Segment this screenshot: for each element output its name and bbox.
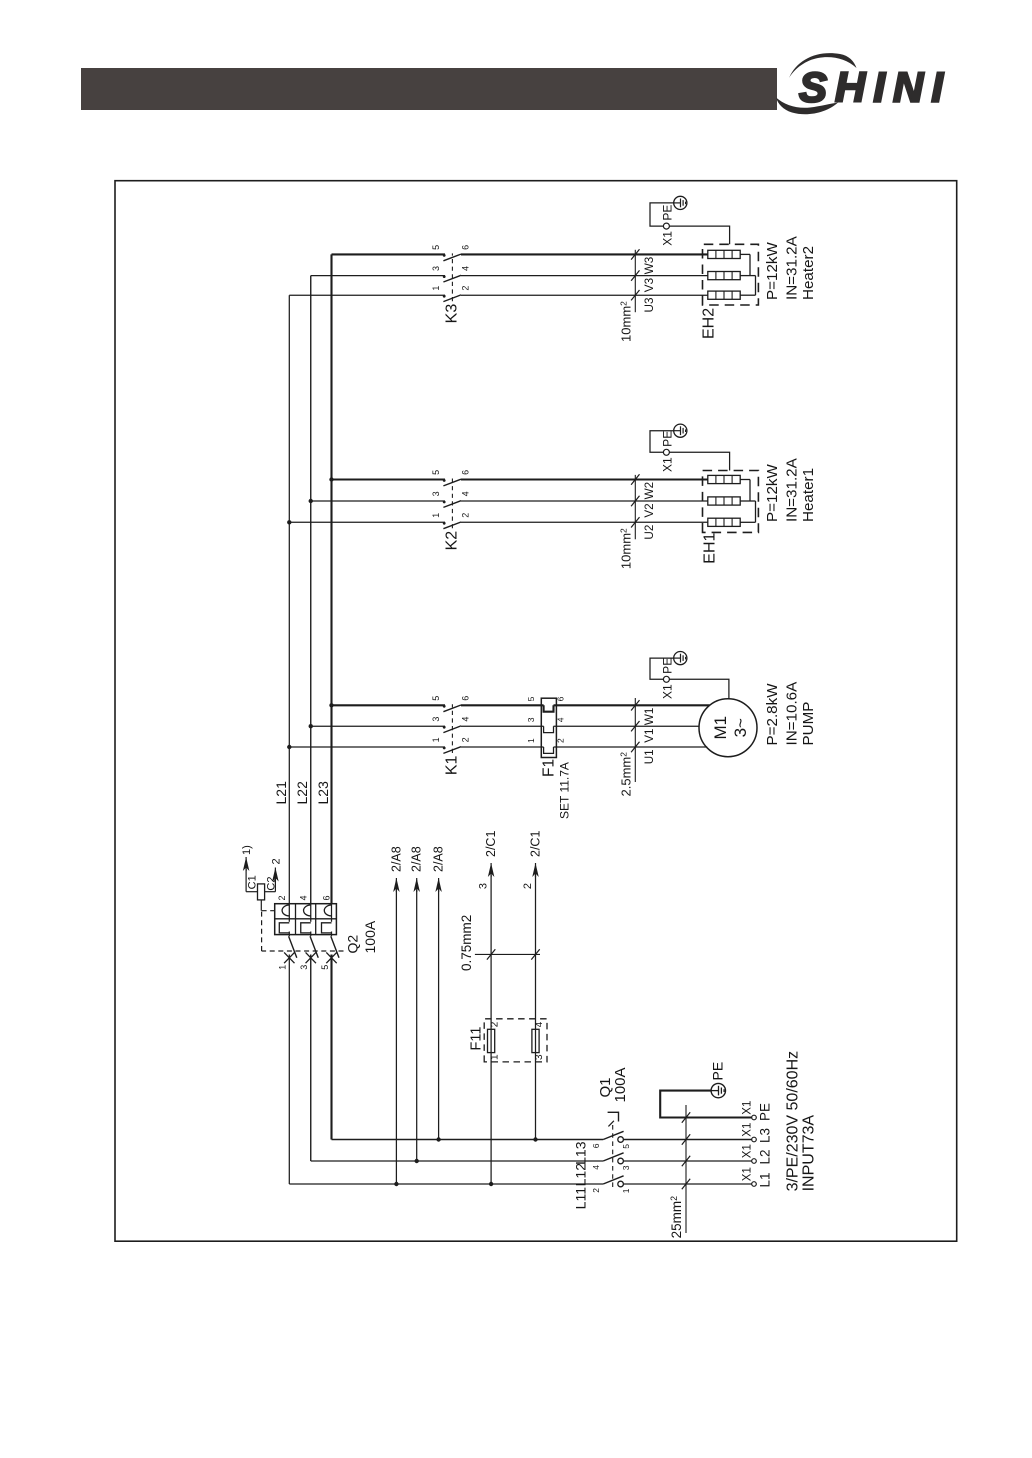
svg-text:P=12kW: P=12kW [764, 242, 781, 300]
svg-text:IN=31.2A: IN=31.2A [784, 457, 801, 522]
svg-text:2: 2 [460, 737, 470, 742]
wire W1 (F1 pin6 to motor) [554, 704, 710, 706]
svg-text:5: 5 [320, 965, 330, 970]
svg-text:PUMP: PUMP [800, 702, 817, 746]
header title bar [81, 68, 777, 110]
wire EH1 phase V (contactor to element) [461, 500, 708, 502]
svg-text:V2: V2 [643, 503, 656, 517]
svg-text:C1: C1 [246, 875, 258, 889]
svg-text:5: 5 [431, 245, 441, 250]
terminal X1 on PE wire of motor M1 [663, 676, 669, 682]
svg-text:5: 5 [431, 470, 441, 475]
svg-text:U2: U2 [643, 525, 656, 540]
svg-text:X1: X1 [742, 1167, 754, 1181]
terminal X1 on PE wire of heater EH2 [663, 223, 669, 229]
wire K1 pin4 to F1 (V phase) [461, 725, 544, 727]
dashed enclosure EH1 [703, 471, 759, 533]
svg-text:L3: L3 [758, 1128, 773, 1143]
wire drop L23 to K2 pin5 [332, 478, 446, 480]
earth symbol of heater EH1 [674, 424, 687, 437]
circuit breaker Q2 body [275, 904, 337, 937]
svg-text:1: 1 [431, 737, 441, 742]
terminal X1 L3 [752, 1137, 757, 1142]
wire L13 [332, 1139, 604, 1141]
heater element 3 of EH1 [708, 475, 750, 483]
svg-text:EH1: EH1 [702, 532, 719, 563]
svg-text:PE: PE [758, 1103, 773, 1121]
svg-text:6: 6 [556, 696, 566, 701]
svg-text:2: 2 [490, 1021, 501, 1027]
svg-text:2/A8: 2/A8 [432, 846, 446, 872]
wire tap 2/C1 wire 3 (via fuse F11) [490, 875, 492, 1184]
svg-text:4: 4 [534, 1021, 545, 1027]
wire drop L22 to K2 pin3 [311, 500, 445, 502]
wire EH1 phase W (contactor to element) [461, 478, 708, 480]
wire EH2 phase W (contactor to element) [461, 253, 708, 255]
svg-text:PE: PE [661, 658, 675, 674]
svg-text:3: 3 [431, 717, 441, 722]
svg-text:X1: X1 [661, 457, 675, 472]
earth symbol input PE [711, 1083, 725, 1097]
svg-text:L22: L22 [294, 781, 310, 805]
svg-text:L23: L23 [315, 781, 331, 805]
svg-text:P=12kW: P=12kW [764, 464, 781, 522]
Q2 mechanism dashed link [261, 900, 343, 951]
drawing border frame [115, 181, 957, 1242]
wire EH2 phase V (contactor to element) [461, 275, 708, 277]
svg-text:3: 3 [621, 1165, 631, 1170]
wire drop L23 to K3 pin5 [332, 253, 446, 255]
svg-text:W2: W2 [643, 482, 656, 500]
cable marker 10mm2 for EH1 [619, 474, 640, 569]
wire V1 (F1 pin4 to motor) [554, 725, 700, 727]
wire tap 2/A8 phase L13 [438, 890, 440, 1140]
motor M1 pump [699, 699, 757, 757]
wire drop L22 to K3 pin3 [311, 275, 445, 277]
wire K1 pin2 to F1 (U phase) [461, 746, 544, 748]
svg-text:3: 3 [534, 1054, 545, 1060]
svg-text:6: 6 [460, 245, 470, 250]
wire L12 [311, 1160, 603, 1162]
svg-text:SET 11.7A: SET 11.7A [558, 762, 572, 819]
svg-text:5: 5 [526, 696, 536, 701]
heater element 2 of EH2 [708, 272, 756, 280]
svg-text:PE: PE [661, 431, 675, 447]
svg-text:X1: X1 [661, 684, 675, 699]
svg-text:6: 6 [591, 1143, 601, 1148]
svg-text:4: 4 [591, 1165, 601, 1170]
dashed enclosure EH2 [703, 244, 759, 305]
svg-text:2/A8: 2/A8 [389, 846, 403, 872]
heater element 2 of EH1 [708, 497, 756, 505]
svg-text:C2: C2 [265, 877, 277, 891]
svg-text:P=2.8kW: P=2.8kW [764, 683, 781, 746]
star tie wire of EH2 [749, 254, 751, 275]
cable marker 2.5mm2 for pump feed [619, 698, 640, 796]
contactor K3 mechanism dashed link [451, 253, 453, 301]
svg-text:3: 3 [431, 491, 441, 496]
svg-text:SHINI: SHINI [799, 64, 951, 111]
svg-text:100A: 100A [362, 920, 378, 953]
svg-text:F11: F11 [469, 1027, 485, 1051]
contactor K1 contacts [443, 705, 461, 754]
cable marker 10mm2 for EH2 [619, 249, 640, 342]
svg-text:3/PE/230V 50/60Hz: 3/PE/230V 50/60Hz [785, 1051, 802, 1192]
svg-text:4: 4 [556, 717, 566, 722]
svg-text:4: 4 [460, 717, 470, 722]
contactor K2 contacts [443, 479, 461, 529]
contactor K1 mechanism dashed link [451, 704, 453, 753]
svg-text:3: 3 [431, 266, 441, 271]
svg-text:V1: V1 [643, 729, 656, 743]
svg-text:1: 1 [431, 286, 441, 291]
svg-text:L11: L11 [573, 1187, 589, 1210]
wire drop L23 to K1 pin5 [332, 704, 446, 706]
svg-text:PE: PE [710, 1062, 726, 1081]
svg-text:2/C1: 2/C1 [484, 831, 498, 857]
cable marker 0.75mm2 [459, 915, 540, 971]
svg-text:L13: L13 [573, 1141, 589, 1165]
wire bus L22 (load side) [310, 276, 312, 904]
svg-text:F1: F1 [541, 759, 558, 777]
svg-text:6: 6 [460, 470, 470, 475]
svg-text:K2: K2 [443, 531, 460, 551]
svg-text:100A: 100A [612, 1067, 629, 1102]
wire bus L23 (load side) [330, 254, 332, 903]
svg-text:2.5mm2: 2.5mm2 [619, 752, 634, 797]
auxiliary contact C1/C2 of Q2 [243, 857, 279, 900]
earth symbol of heater EH2 [674, 196, 687, 209]
wire bus L23 (Q1 side) [330, 955, 332, 1140]
svg-text:1: 1 [621, 1188, 631, 1193]
svg-text:2/C1: 2/C1 [529, 831, 543, 857]
star tie wire of EH1 [749, 480, 751, 502]
svg-text:U1: U1 [643, 749, 656, 764]
heater element 1 of EH1 [708, 518, 756, 526]
wire bus L21 (load side) [288, 295, 290, 904]
wire PE of motor M1 [650, 658, 729, 699]
svg-text:4: 4 [460, 266, 470, 271]
svg-text:X1: X1 [742, 1144, 754, 1158]
svg-text:X1: X1 [742, 1101, 754, 1115]
svg-text:M1: M1 [711, 716, 730, 740]
svg-text:X1: X1 [742, 1123, 754, 1137]
svg-text:0.75mm2: 0.75mm2 [459, 915, 474, 971]
wire drop L21 to K3 pin1 [289, 294, 445, 296]
circuit breaker Q2 contacts [284, 936, 339, 963]
svg-text:5: 5 [621, 1144, 631, 1149]
svg-text:INPUT73A: INPUT73A [801, 1115, 818, 1192]
SHINI logo [776, 53, 951, 114]
svg-text:4: 4 [299, 895, 309, 900]
terminal X1 L2 [752, 1159, 757, 1164]
svg-text:2: 2 [460, 513, 470, 518]
wire EH2 phase U (contactor to element) [461, 294, 708, 296]
cable marker 25mm2 input [669, 1105, 690, 1238]
wire L11 [289, 1183, 603, 1185]
svg-text:PE: PE [661, 205, 675, 221]
main switch Q1 [603, 1112, 752, 1187]
overload relay F1 body [541, 698, 556, 757]
wire tap 2/A8 phase L11 [395, 890, 397, 1184]
wire tap 2/A8 phase L12 [416, 890, 418, 1161]
svg-text:Heater1: Heater1 [800, 468, 817, 522]
terminal X1 L1 [752, 1182, 757, 1187]
earth symbol of motor M1 [674, 651, 687, 664]
svg-text:10mm2: 10mm2 [619, 301, 634, 342]
svg-text:IN=31.2A: IN=31.2A [784, 235, 801, 300]
svg-text:4: 4 [460, 491, 470, 496]
wire drop L21 to K2 pin1 [289, 521, 445, 523]
svg-text:3: 3 [526, 717, 536, 722]
wire K1 pin6 to F1 (W phase) [461, 704, 544, 706]
svg-text:3~: 3~ [731, 718, 750, 737]
heater element 3 of EH2 [708, 250, 750, 258]
svg-text:K1: K1 [443, 755, 460, 775]
svg-text:X1: X1 [661, 231, 675, 246]
svg-text:V3: V3 [643, 278, 656, 292]
contactor K3 contacts [443, 254, 461, 302]
F1 heater element jogs [544, 705, 554, 753]
fuse F11 element 1 (pins 1-2) [488, 1029, 495, 1052]
wire bus L22 (Q1 side) [310, 955, 312, 1162]
svg-text:L12: L12 [573, 1163, 589, 1187]
wire EH1 phase U (contactor to element) [461, 521, 708, 523]
terminal X1 on PE wire of heater EH1 [663, 449, 669, 455]
wire PE input riser [660, 1091, 752, 1118]
svg-text:Q2: Q2 [344, 935, 360, 954]
svg-text:2: 2 [277, 895, 287, 900]
svg-text:3: 3 [299, 965, 309, 970]
svg-text:IN=10.6A: IN=10.6A [784, 681, 801, 746]
svg-text:2: 2 [522, 883, 534, 889]
svg-text:1: 1 [526, 738, 536, 743]
heater element 1 of EH2 [708, 291, 756, 299]
svg-text:2: 2 [556, 738, 566, 743]
contactor K2 mechanism dashed link [451, 479, 453, 529]
svg-text:10mm2: 10mm2 [619, 528, 634, 569]
svg-text:EH2: EH2 [701, 308, 718, 339]
svg-text:2: 2 [271, 858, 283, 864]
wire PE of heater EH1 [650, 431, 730, 471]
wire bus L21 (Q1 side) [288, 955, 290, 1185]
fuse F11 element 2 (pins 3-4) [532, 1029, 539, 1052]
svg-text:6: 6 [322, 895, 332, 900]
svg-text:L21: L21 [273, 781, 289, 805]
svg-text:W1: W1 [643, 708, 656, 726]
wire PE of heater EH2 [650, 203, 730, 244]
fuse F11 dashed enclosure [484, 1019, 547, 1062]
svg-text:K3: K3 [443, 304, 460, 324]
svg-text:1: 1 [490, 1054, 501, 1060]
wire drop L21 to K1 pin1 [289, 746, 445, 748]
svg-text:2: 2 [460, 286, 470, 291]
svg-text:U3: U3 [643, 298, 656, 313]
svg-text:1: 1 [431, 513, 441, 518]
svg-text:1): 1) [241, 845, 253, 855]
wire U1 (F1 pin2 to motor) [554, 746, 708, 748]
svg-text:1: 1 [278, 965, 288, 970]
svg-text:L1: L1 [758, 1172, 773, 1187]
wire tap 2/C1 wire 2 (via fuse F11) [535, 875, 537, 1140]
svg-text:Heater2: Heater2 [800, 246, 817, 300]
svg-text:3: 3 [478, 883, 490, 889]
svg-text:5: 5 [431, 696, 441, 701]
svg-text:W3: W3 [643, 257, 656, 275]
wire drop L22 to K1 pin3 [311, 725, 445, 727]
svg-text:6: 6 [460, 696, 470, 701]
svg-text:25mm2: 25mm2 [669, 1196, 684, 1239]
svg-text:2: 2 [591, 1188, 601, 1193]
svg-text:2/A8: 2/A8 [410, 846, 424, 872]
svg-text:L2: L2 [758, 1149, 773, 1164]
terminal X1 PE [752, 1115, 757, 1120]
